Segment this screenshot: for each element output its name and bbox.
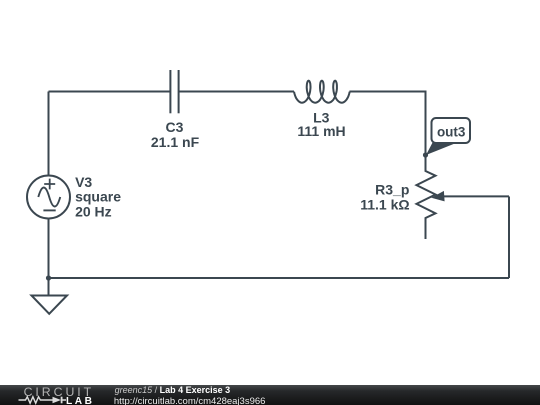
wire top rail left of C3 [49, 91, 171, 93]
capacitor C3 plates [170, 70, 178, 113]
svg-text:out3: out3 [437, 125, 466, 140]
node junction out3 dot [423, 152, 428, 157]
wire top rail L3 to right corner down to node [349, 92, 425, 156]
wire ground stub [48, 278, 50, 296]
footer title line [115, 386, 231, 395]
ground symbol [32, 296, 68, 314]
wire wiper horizontal [444, 195, 509, 197]
svg-text:21.1 nF: 21.1 nF [151, 134, 200, 150]
wire right vertical wiper to bottom rail [508, 197, 510, 279]
out3 flag box [432, 118, 471, 143]
svg-text:20 Hz: 20 Hz [75, 204, 112, 220]
node junction ground dot [46, 275, 51, 280]
bottom rail wire [49, 277, 510, 279]
svg-text:square: square [75, 189, 121, 205]
wire V3 bottom to ground node [48, 219, 50, 279]
svg-text:V3: V3 [75, 174, 92, 190]
wire top rail C3 to L3 [179, 91, 294, 93]
wiper arrow [431, 191, 444, 202]
logo schematic doodle: wire, resistor, diode [18, 395, 70, 405]
svg-text:C3: C3 [166, 119, 184, 135]
logo LAB [66, 397, 94, 405]
voltage source V3 [27, 176, 70, 219]
svg-text:11.1 kΩ: 11.1 kΩ [360, 197, 409, 213]
svg-text:111 mH: 111 mH [297, 123, 345, 139]
inductor L3 coil [294, 81, 350, 103]
CircuitLab logo wordmark CIRCUIT [24, 386, 95, 398]
footer url line [114, 397, 266, 405]
footer bar [0, 385, 540, 405]
potentiometer R3_p body [417, 155, 436, 239]
out3 flag pointer wedge [426, 141, 457, 155]
svg-text:R3_p: R3_p [375, 181, 409, 197]
wire left rail top to V3 [48, 92, 50, 176]
